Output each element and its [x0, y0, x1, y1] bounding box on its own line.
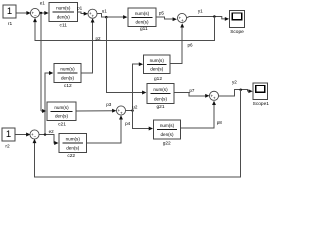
svg-text:g11: g11 — [140, 26, 148, 32]
svg-text:p2: p2 — [95, 36, 101, 41]
svg-text:num(s): num(s) — [66, 137, 81, 142]
svg-text:den(s): den(s) — [55, 114, 68, 119]
svg-text:−: − — [34, 134, 37, 139]
svg-text:den(s): den(s) — [150, 67, 163, 72]
svg-text:num(s): num(s) — [56, 6, 71, 11]
svg-text:y2: y2 — [232, 79, 237, 84]
svg-text:den(s): den(s) — [160, 132, 173, 137]
svg-text:g21: g21 — [156, 104, 164, 110]
svg-text:1: 1 — [7, 6, 12, 17]
svg-text:+: + — [213, 96, 216, 101]
svg-text:g22: g22 — [163, 140, 171, 146]
svg-text:+: + — [120, 110, 123, 115]
svg-text:y1: y1 — [198, 8, 203, 13]
svg-text:Scope1: Scope1 — [253, 101, 269, 107]
svg-text:p6: p6 — [187, 42, 193, 47]
svg-text:num(s): num(s) — [153, 87, 168, 92]
svg-text:p3: p3 — [106, 102, 112, 107]
svg-text:Scope: Scope — [230, 29, 244, 35]
svg-text:num(s): num(s) — [54, 105, 69, 110]
svg-text:p7: p7 — [189, 88, 195, 93]
svg-text:g12: g12 — [154, 76, 162, 82]
svg-text:den(s): den(s) — [66, 146, 79, 151]
svg-text:e1: e1 — [40, 1, 46, 6]
svg-text:den(s): den(s) — [57, 15, 70, 20]
svg-text:u1: u1 — [102, 8, 108, 13]
svg-text:num(s): num(s) — [150, 58, 165, 63]
svg-text:p4: p4 — [125, 121, 131, 126]
svg-text:u2: u2 — [132, 104, 138, 109]
svg-text:1: 1 — [6, 129, 11, 140]
svg-text:c22: c22 — [67, 153, 75, 159]
svg-text:den(s): den(s) — [135, 20, 148, 25]
svg-text:den(s): den(s) — [61, 76, 74, 81]
svg-text:e2: e2 — [49, 129, 55, 134]
svg-text:num(s): num(s) — [60, 67, 75, 72]
svg-text:p1: p1 — [77, 6, 83, 11]
svg-text:num(s): num(s) — [160, 123, 175, 128]
svg-text:+: + — [181, 18, 184, 23]
svg-text:den(s): den(s) — [154, 97, 167, 102]
svg-text:num(s): num(s) — [135, 11, 150, 16]
svg-text:c12: c12 — [64, 83, 72, 89]
svg-text:−: − — [34, 13, 37, 18]
svg-text:r1: r1 — [8, 21, 13, 27]
svg-text:c11: c11 — [60, 23, 68, 29]
svg-text:p5: p5 — [159, 10, 165, 15]
svg-text:p8: p8 — [217, 120, 223, 125]
svg-text:c21: c21 — [58, 122, 66, 128]
svg-text:r2: r2 — [5, 144, 10, 150]
svg-text:+: + — [92, 14, 95, 19]
